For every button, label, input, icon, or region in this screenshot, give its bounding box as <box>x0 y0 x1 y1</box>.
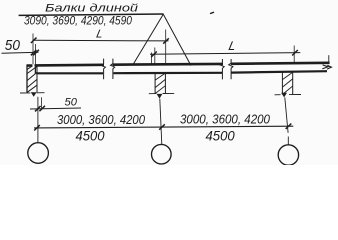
svg-text:4500: 4500 <box>206 127 235 143</box>
svg-text:Балки длиной: Балки длиной <box>45 2 138 14</box>
svg-text:50: 50 <box>65 97 78 109</box>
svg-text:50: 50 <box>5 38 20 54</box>
svg-text:4500: 4500 <box>76 127 105 143</box>
svg-text:3000, 3600, 4200: 3000, 3600, 4200 <box>180 112 270 126</box>
svg-text:3090, 3690, 4290, 4590: 3090, 3690, 4290, 4590 <box>24 15 133 27</box>
svg-text:3000, 3600, 4200: 3000, 3600, 4200 <box>57 113 145 127</box>
